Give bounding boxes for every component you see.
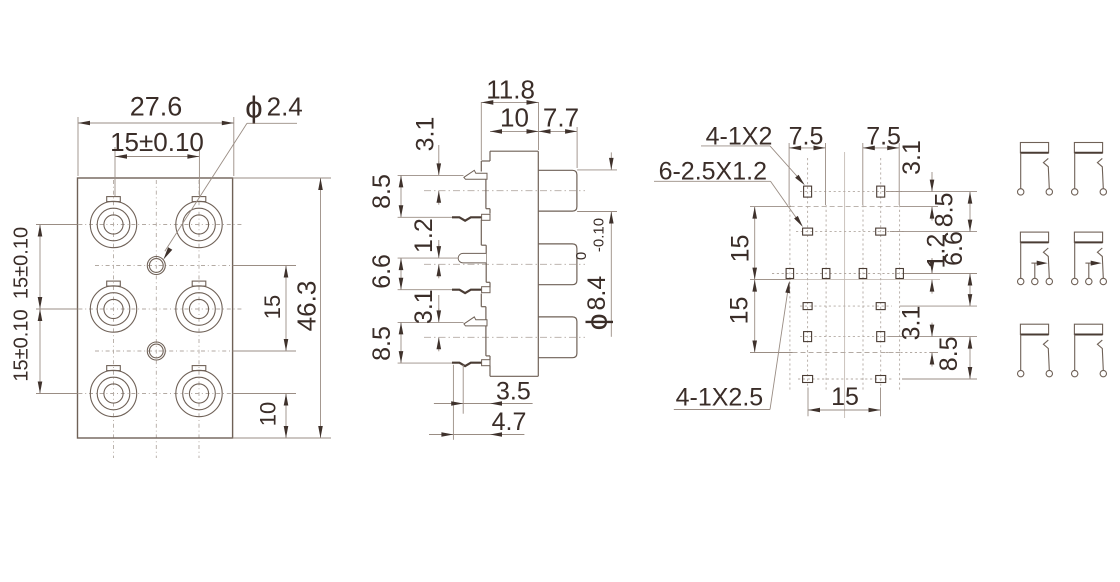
svg-text:0: 0	[573, 252, 590, 260]
svg-text:3.1: 3.1	[410, 289, 438, 324]
svg-text:10: 10	[256, 402, 281, 426]
svg-text:15±0.10: 15±0.10	[11, 227, 33, 299]
svg-text:4.7: 4.7	[492, 408, 527, 436]
svg-text:-0.10: -0.10	[591, 218, 608, 252]
svg-text:27.6: 27.6	[130, 92, 183, 122]
svg-text:7.5: 7.5	[789, 123, 824, 151]
svg-text:8.5: 8.5	[368, 174, 396, 209]
svg-text:8.5: 8.5	[368, 326, 396, 361]
svg-text:15: 15	[260, 295, 285, 319]
svg-text:15: 15	[726, 297, 754, 325]
svg-text:3.1: 3.1	[897, 306, 925, 341]
svg-text:15±0.10: 15±0.10	[110, 127, 204, 157]
svg-text:1.2: 1.2	[410, 218, 438, 253]
svg-text:10: 10	[500, 103, 529, 133]
svg-text:8.5: 8.5	[935, 336, 963, 371]
svg-text:7.5: 7.5	[866, 123, 901, 151]
svg-text:ϕ8.4: ϕ8.4	[581, 276, 614, 331]
svg-text:15±0.10: 15±0.10	[11, 309, 33, 381]
svg-text:46.3: 46.3	[292, 281, 322, 332]
svg-text:7.7: 7.7	[543, 103, 579, 133]
svg-text:4-1X2.5: 4-1X2.5	[676, 384, 764, 412]
svg-text:3.1: 3.1	[412, 117, 440, 152]
svg-text:15: 15	[831, 383, 859, 411]
svg-text:11.8: 11.8	[486, 75, 535, 105]
svg-text:6.6: 6.6	[368, 254, 396, 289]
svg-text:3.5: 3.5	[496, 378, 531, 406]
svg-text:ϕ2.4: ϕ2.4	[245, 89, 303, 124]
svg-text:8.5: 8.5	[931, 193, 959, 228]
svg-text:3.1: 3.1	[898, 140, 926, 175]
svg-text:15: 15	[727, 235, 755, 263]
svg-text:6.6: 6.6	[940, 231, 968, 266]
